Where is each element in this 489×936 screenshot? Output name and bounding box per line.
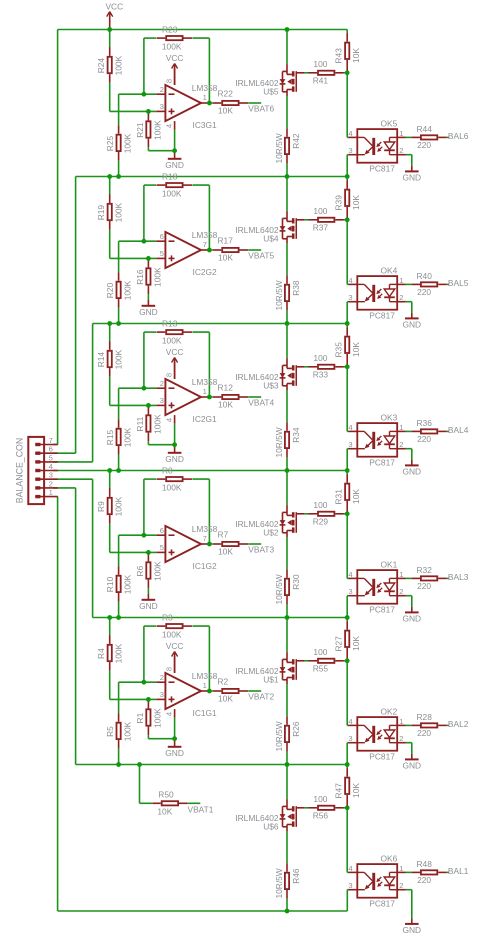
resistor R8 (feedback 100K) bbox=[144, 465, 210, 492]
svg-text:R55: R55 bbox=[313, 664, 329, 674]
svg-text:R36: R36 bbox=[417, 418, 433, 428]
svg-text:VBAT5: VBAT5 bbox=[248, 250, 274, 260]
svg-text:10R/5W: 10R/5W bbox=[274, 868, 284, 898]
svg-text:R20: R20 bbox=[105, 282, 115, 298]
ground (opto) bbox=[402, 166, 421, 183]
resistor R3 (feedback 100K) bbox=[144, 612, 210, 639]
svg-text:VCC: VCC bbox=[105, 2, 123, 12]
svg-text:GND: GND bbox=[165, 160, 184, 170]
svg-text:IC3G1: IC3G1 bbox=[193, 120, 218, 130]
wire to - input bbox=[119, 681, 157, 683]
op-amp IC1G2 (LM358) bbox=[156, 524, 217, 571]
pin 4 stub bbox=[174, 709, 176, 718]
svg-text:R32: R32 bbox=[417, 565, 433, 575]
resistor R25 (100K to lower rail) bbox=[105, 94, 133, 176]
ground (divider) bbox=[139, 300, 158, 317]
svg-text:VBAT3: VBAT3 bbox=[248, 544, 274, 554]
svg-text:R9: R9 bbox=[96, 501, 106, 512]
resistor R40 (220) bbox=[406, 271, 449, 297]
svg-text:LM358: LM358 bbox=[192, 230, 218, 240]
svg-text:R40: R40 bbox=[417, 271, 433, 281]
op-amp IC1G1 (LM358) bbox=[156, 641, 217, 739]
svg-text:3: 3 bbox=[160, 396, 164, 405]
svg-text:10K: 10K bbox=[218, 693, 233, 703]
resistor R26 (10R/5W) bbox=[274, 684, 301, 765]
svg-text:R48: R48 bbox=[417, 859, 433, 869]
svg-text:VBAT6: VBAT6 bbox=[248, 103, 274, 113]
wire opto emitter to ground bbox=[406, 448, 412, 450]
junction nodes row 1 bbox=[107, 174, 112, 179]
svg-text:R39: R39 bbox=[334, 195, 344, 211]
svg-text:U$3: U$3 bbox=[263, 381, 279, 391]
node + input bbox=[146, 403, 151, 408]
junction nodes row 3 bbox=[107, 468, 112, 473]
node op-amp gnd bbox=[172, 148, 177, 153]
svg-text:R1: R1 bbox=[135, 712, 145, 723]
wire drain rail from row 2 bbox=[286, 324, 288, 359]
node + input bbox=[146, 697, 151, 702]
transistor U$5 (IRLML6402) bbox=[235, 64, 304, 97]
node output bbox=[207, 101, 212, 106]
svg-text:VBAT1: VBAT1 bbox=[188, 805, 214, 815]
svg-text:R44: R44 bbox=[417, 124, 433, 134]
svg-text:1: 1 bbox=[399, 717, 403, 726]
svg-text:10K: 10K bbox=[351, 783, 361, 798]
junction node bottom rail bbox=[285, 909, 290, 914]
svg-text:10K: 10K bbox=[157, 807, 172, 817]
resistor R33 (100 gate) bbox=[304, 353, 347, 380]
pin 4 stub bbox=[174, 121, 176, 130]
node gate bbox=[345, 217, 350, 222]
svg-text:GND: GND bbox=[402, 613, 421, 623]
svg-text:100: 100 bbox=[313, 794, 327, 804]
svg-text:R12: R12 bbox=[218, 383, 234, 393]
wire feedback left vertical bbox=[143, 332, 145, 388]
svg-text:VBAT4: VBAT4 bbox=[248, 397, 274, 407]
svg-text:1: 1 bbox=[399, 276, 403, 285]
node - input bbox=[142, 680, 147, 685]
wire pin3 feed bbox=[53, 478, 93, 480]
node gate bbox=[345, 364, 350, 369]
svg-text:100: 100 bbox=[313, 206, 327, 216]
svg-text:OK6: OK6 bbox=[381, 853, 398, 863]
svg-text:100K: 100K bbox=[162, 188, 182, 198]
svg-text:10K: 10K bbox=[351, 636, 361, 651]
svg-text:OK3: OK3 bbox=[381, 412, 398, 422]
svg-text:1: 1 bbox=[399, 423, 403, 432]
svg-text:3: 3 bbox=[348, 440, 352, 449]
svg-text:R15: R15 bbox=[105, 429, 115, 445]
node - input bbox=[142, 386, 147, 391]
svg-text:100: 100 bbox=[313, 647, 327, 657]
svg-text:LM358: LM358 bbox=[192, 377, 218, 387]
wire pin 3 to lower rail bbox=[347, 595, 348, 597]
svg-text:100K: 100K bbox=[123, 280, 133, 300]
svg-text:10R/5W: 10R/5W bbox=[274, 427, 284, 457]
wire pin2 feed bbox=[53, 487, 76, 489]
wire feedback left vertical bbox=[143, 185, 145, 241]
svg-text:10R/5W: 10R/5W bbox=[274, 721, 284, 751]
svg-text:6: 6 bbox=[49, 445, 53, 454]
wire to - input bbox=[119, 387, 157, 389]
junction nodes row 2 bbox=[107, 321, 112, 326]
svg-text:IC2G1: IC2G1 bbox=[193, 414, 218, 424]
svg-text:GND: GND bbox=[139, 601, 158, 611]
svg-text:R21: R21 bbox=[135, 122, 145, 138]
node gate bbox=[345, 805, 350, 810]
wire pin7 stub join bbox=[53, 444, 58, 446]
svg-text:GND: GND bbox=[402, 760, 421, 770]
svg-text:IC1G1: IC1G1 bbox=[193, 708, 218, 718]
connector BALANCE_CON bbox=[15, 436, 58, 504]
wire R to GND bbox=[147, 294, 149, 300]
resistor R56 (100 gate) bbox=[304, 794, 347, 821]
svg-text:7: 7 bbox=[203, 534, 207, 543]
svg-text:GND: GND bbox=[139, 307, 158, 317]
op-amp IC2G2 (LM358) bbox=[156, 230, 217, 277]
svg-text:R29: R29 bbox=[313, 517, 329, 527]
resistor R7 (10K output) bbox=[209, 530, 261, 557]
node + input bbox=[146, 550, 151, 555]
svg-text:GND: GND bbox=[165, 748, 184, 758]
ground (opto) bbox=[402, 918, 421, 935]
op-amp IC3G1 (LM358) bbox=[156, 53, 217, 151]
svg-text:2: 2 bbox=[399, 587, 403, 596]
node gate bbox=[345, 511, 350, 516]
svg-text:R30: R30 bbox=[291, 574, 301, 590]
wire row 2 bus bbox=[93, 323, 348, 325]
svg-text:3: 3 bbox=[160, 690, 164, 699]
resistor R17 (10K output) bbox=[209, 236, 261, 263]
svg-text:100K: 100K bbox=[152, 708, 162, 728]
svg-text:R41: R41 bbox=[313, 76, 329, 86]
wire pin5 feed bbox=[53, 461, 93, 463]
pin 8 stub + VCC bbox=[174, 656, 176, 673]
wire to - input bbox=[119, 534, 157, 536]
wire row 1 bus bbox=[76, 176, 348, 178]
svg-text:10R/5W: 10R/5W bbox=[274, 280, 284, 310]
svg-text:1: 1 bbox=[399, 864, 403, 873]
svg-text:3: 3 bbox=[348, 146, 352, 155]
svg-text:3: 3 bbox=[160, 102, 164, 111]
node op-amp gnd bbox=[172, 442, 177, 447]
resistor R15 (100K to lower rail) bbox=[105, 388, 133, 470]
svg-text:1: 1 bbox=[399, 570, 403, 579]
svg-text:R4: R4 bbox=[96, 648, 106, 659]
node drain rail on top rail bbox=[285, 27, 290, 32]
resistor R14 (100K from upper rail) bbox=[96, 324, 124, 406]
svg-text:IC1G2: IC1G2 bbox=[193, 561, 218, 571]
wire feedback right vertical bbox=[208, 479, 210, 544]
node VCC/R24 on top rail bbox=[107, 27, 112, 32]
svg-text:U$1: U$1 bbox=[263, 675, 279, 685]
svg-text:R56: R56 bbox=[313, 811, 329, 821]
wire opto emitter to ground bbox=[406, 742, 412, 744]
resistor R10 (100K to lower rail) bbox=[105, 535, 133, 617]
svg-text:1: 1 bbox=[49, 488, 53, 497]
svg-text:OK1: OK1 bbox=[381, 559, 398, 569]
transistor U$6 (IRLML6402) bbox=[235, 799, 304, 832]
svg-text:R46: R46 bbox=[291, 868, 301, 884]
svg-text:4: 4 bbox=[348, 276, 352, 285]
svg-text:PC817: PC817 bbox=[369, 899, 395, 909]
svg-text:U$5: U$5 bbox=[263, 87, 279, 97]
transistor U$4 (IRLML6402) bbox=[235, 211, 304, 244]
svg-text:PC817: PC817 bbox=[369, 458, 395, 468]
svg-text:100: 100 bbox=[313, 59, 327, 69]
svg-text:5: 5 bbox=[160, 249, 164, 258]
svg-text:PC817: PC817 bbox=[369, 164, 395, 174]
svg-text:R43: R43 bbox=[334, 48, 344, 64]
wire drain rail from row 4 bbox=[286, 618, 288, 653]
wire feedback right vertical bbox=[208, 38, 210, 103]
svg-text:100K: 100K bbox=[123, 721, 133, 741]
svg-text:R22: R22 bbox=[218, 89, 234, 99]
svg-text:2: 2 bbox=[160, 85, 164, 94]
optocoupler OK2 (PC817) bbox=[347, 661, 406, 765]
svg-text:BALANCE_CON: BALANCE_CON bbox=[15, 438, 25, 504]
svg-text:R11: R11 bbox=[135, 416, 145, 431]
wire to + input bbox=[110, 698, 157, 700]
resistor R19 (100K from upper rail) bbox=[96, 177, 124, 259]
svg-text:2: 2 bbox=[49, 479, 53, 488]
optocoupler OK4 (PC817) bbox=[347, 220, 406, 324]
wire to - input bbox=[119, 93, 157, 95]
wire R to GND bbox=[147, 588, 149, 594]
svg-text:220: 220 bbox=[417, 875, 431, 885]
node + input bbox=[146, 109, 151, 114]
optocoupler OK5 (PC817) bbox=[347, 73, 406, 177]
svg-text:220: 220 bbox=[417, 140, 431, 150]
svg-text:100K: 100K bbox=[114, 349, 124, 369]
svg-text:10R/5W: 10R/5W bbox=[274, 133, 284, 163]
svg-text:100K: 100K bbox=[152, 120, 162, 140]
svg-text:10K: 10K bbox=[218, 546, 233, 556]
wire opto emitter to ground bbox=[406, 154, 412, 156]
svg-text:3: 3 bbox=[49, 471, 53, 480]
svg-text:LM358: LM358 bbox=[192, 83, 218, 93]
svg-text:2: 2 bbox=[399, 293, 403, 302]
svg-text:R24: R24 bbox=[96, 58, 106, 74]
pin 4 stub bbox=[174, 415, 176, 424]
svg-text:7: 7 bbox=[203, 240, 207, 249]
resistor R37 (100 gate) bbox=[304, 206, 347, 233]
svg-text:R26: R26 bbox=[291, 721, 301, 737]
node - input bbox=[142, 239, 147, 244]
resistor R48 (220) bbox=[406, 859, 449, 885]
resistor R20 (100K to lower rail) bbox=[105, 241, 133, 323]
svg-text:LM358: LM358 bbox=[192, 671, 218, 681]
wire R to GND joint bbox=[147, 441, 149, 445]
resistor R21 (100K to GND) bbox=[135, 112, 163, 147]
resistor R46 (10R/5W) bbox=[274, 831, 301, 911]
svg-text:8: 8 bbox=[164, 79, 173, 83]
svg-text:R31: R31 bbox=[334, 489, 344, 505]
svg-text:10K: 10K bbox=[218, 105, 233, 115]
power symbol VCC (top) bbox=[105, 2, 123, 30]
svg-text:100K: 100K bbox=[114, 643, 124, 663]
svg-text:7: 7 bbox=[49, 436, 53, 445]
svg-text:100: 100 bbox=[313, 500, 327, 510]
transistor U$2 (IRLML6402) bbox=[235, 505, 304, 538]
resistor R5 (100K to lower rail) bbox=[105, 682, 133, 764]
wire gate node to pin 4 bbox=[346, 73, 348, 138]
wire pin 3 to lower rail bbox=[347, 889, 348, 891]
svg-text:VCC: VCC bbox=[166, 347, 184, 357]
svg-text:10K: 10K bbox=[351, 342, 361, 357]
wire gate node to pin 4 bbox=[346, 661, 348, 726]
svg-text:BAL4: BAL4 bbox=[448, 425, 469, 435]
resistor R35 (10K pull-up) bbox=[334, 324, 362, 367]
resistor R13 (feedback 100K) bbox=[144, 318, 210, 345]
svg-text:4: 4 bbox=[348, 864, 352, 873]
resistor R22 (10K output) bbox=[209, 89, 261, 116]
node - input bbox=[142, 533, 147, 538]
svg-text:220: 220 bbox=[417, 434, 431, 444]
svg-text:3: 3 bbox=[348, 881, 352, 890]
svg-text:R7: R7 bbox=[218, 530, 229, 540]
wire drain rail from row 5 bbox=[286, 765, 288, 800]
svg-text:R19: R19 bbox=[96, 205, 106, 221]
svg-text:PC817: PC817 bbox=[369, 752, 395, 762]
svg-text:GND: GND bbox=[402, 466, 421, 476]
svg-text:IC2G2: IC2G2 bbox=[193, 267, 218, 277]
svg-text:1: 1 bbox=[203, 93, 207, 102]
junction nodes row 5 bbox=[116, 762, 121, 767]
svg-text:8: 8 bbox=[164, 667, 173, 671]
node output bbox=[207, 689, 212, 694]
ground (opto) bbox=[402, 313, 421, 330]
wire opto emitter to ground bbox=[406, 889, 412, 891]
node - input bbox=[142, 92, 147, 97]
svg-text:1: 1 bbox=[203, 387, 207, 396]
svg-text:100K: 100K bbox=[123, 133, 133, 153]
svg-text:R17: R17 bbox=[218, 236, 234, 246]
resistor R4 (100K from upper rail) bbox=[96, 618, 124, 700]
svg-text:2: 2 bbox=[399, 146, 403, 155]
resistor R24 (100K from upper rail) bbox=[96, 30, 124, 112]
svg-text:100K: 100K bbox=[152, 414, 162, 434]
resistor R31 (10K pull-up) bbox=[334, 471, 362, 514]
svg-text:R18: R18 bbox=[162, 171, 178, 181]
svg-text:BAL3: BAL3 bbox=[448, 572, 469, 582]
resistor R9 (100K from upper rail) bbox=[96, 471, 124, 553]
svg-text:PC817: PC817 bbox=[369, 311, 395, 321]
wire feedback right vertical bbox=[208, 185, 210, 250]
svg-text:R8: R8 bbox=[162, 465, 173, 475]
svg-text:4: 4 bbox=[164, 124, 173, 128]
optocoupler OK3 (PC817) bbox=[347, 367, 406, 471]
wire top rail VCC (row 0) bbox=[58, 29, 348, 31]
resistor R44 (220) bbox=[406, 124, 449, 150]
svg-text:4: 4 bbox=[348, 570, 352, 579]
svg-text:OK2: OK2 bbox=[381, 706, 398, 716]
resistor R2 (10K output) bbox=[209, 677, 261, 704]
resistor R23 (feedback 100K) bbox=[144, 24, 210, 51]
wire bottom rail (row 6) bbox=[58, 910, 348, 912]
svg-text:R2: R2 bbox=[218, 677, 229, 687]
svg-text:100K: 100K bbox=[123, 427, 133, 447]
svg-text:100K: 100K bbox=[114, 55, 124, 75]
svg-text:10K: 10K bbox=[351, 195, 361, 210]
svg-text:1: 1 bbox=[203, 681, 207, 690]
pin 8 stub + VCC bbox=[174, 362, 176, 379]
resistor R1 (100K to GND) bbox=[135, 700, 163, 735]
wire to + input bbox=[110, 110, 157, 112]
junction nodes row 4 bbox=[107, 615, 112, 620]
svg-text:3: 3 bbox=[348, 734, 352, 743]
wire gate node to pin 4 bbox=[346, 220, 348, 285]
resistor R16 (100K to GND) bbox=[135, 259, 163, 294]
svg-text:3: 3 bbox=[348, 293, 352, 302]
wire gate node to pin 4 bbox=[346, 514, 348, 579]
wire drain rail from row 0 bbox=[286, 30, 288, 65]
node gate bbox=[345, 658, 350, 663]
svg-text:4: 4 bbox=[348, 129, 352, 138]
ground (divider) bbox=[139, 594, 158, 611]
optocoupler OK6 (PC817) bbox=[347, 808, 406, 909]
svg-text:220: 220 bbox=[417, 287, 431, 297]
ground (opto) bbox=[402, 754, 421, 771]
resistor R29 (100 gate) bbox=[304, 500, 347, 527]
ground (opto) bbox=[402, 607, 421, 624]
svg-text:8: 8 bbox=[164, 373, 173, 377]
svg-text:10K: 10K bbox=[218, 252, 233, 262]
svg-text:BAL2: BAL2 bbox=[448, 719, 469, 729]
svg-text:R3: R3 bbox=[162, 612, 173, 622]
svg-text:10K: 10K bbox=[218, 399, 233, 409]
svg-text:R13: R13 bbox=[162, 318, 178, 328]
svg-text:GND: GND bbox=[402, 925, 421, 935]
svg-text:100K: 100K bbox=[162, 335, 182, 345]
wire feedback left vertical bbox=[143, 626, 145, 682]
svg-text:U$2: U$2 bbox=[263, 528, 279, 538]
svg-text:R5: R5 bbox=[105, 726, 115, 737]
resistor R55 (100 gate) bbox=[304, 647, 347, 674]
resistor R34 (10R/5W) bbox=[274, 390, 301, 471]
optocoupler OK1 (PC817) bbox=[347, 514, 406, 618]
wire pin 3 to lower rail bbox=[347, 301, 348, 303]
svg-text:100K: 100K bbox=[162, 629, 182, 639]
svg-text:6: 6 bbox=[160, 526, 164, 535]
resistor R36 (220) bbox=[406, 418, 449, 444]
node + input bbox=[146, 256, 151, 261]
svg-text:6: 6 bbox=[160, 232, 164, 241]
resistor R39 (10K pull-up) bbox=[334, 177, 362, 220]
svg-text:3: 3 bbox=[348, 587, 352, 596]
svg-text:100K: 100K bbox=[114, 202, 124, 222]
resistor R18 (feedback 100K) bbox=[144, 171, 210, 198]
resistor R12 (10K output) bbox=[209, 383, 261, 410]
svg-text:10K: 10K bbox=[351, 489, 361, 504]
wire pin6 feed bbox=[53, 452, 76, 454]
node op-amp gnd bbox=[172, 736, 177, 741]
svg-text:4: 4 bbox=[348, 717, 352, 726]
svg-text:R27: R27 bbox=[334, 636, 344, 652]
svg-text:2: 2 bbox=[399, 440, 403, 449]
svg-text:R33: R33 bbox=[313, 370, 329, 380]
svg-text:R10: R10 bbox=[105, 576, 115, 592]
svg-text:220: 220 bbox=[417, 581, 431, 591]
wire opto emitter to ground bbox=[406, 595, 412, 597]
resistor R30 (10R/5W) bbox=[274, 537, 301, 618]
wire opto emitter to ground bbox=[406, 301, 412, 303]
node gate bbox=[345, 70, 350, 75]
svg-text:100K: 100K bbox=[152, 561, 162, 581]
svg-text:OK4: OK4 bbox=[381, 265, 398, 275]
svg-text:R14: R14 bbox=[96, 352, 106, 368]
svg-text:R50: R50 bbox=[158, 789, 174, 799]
